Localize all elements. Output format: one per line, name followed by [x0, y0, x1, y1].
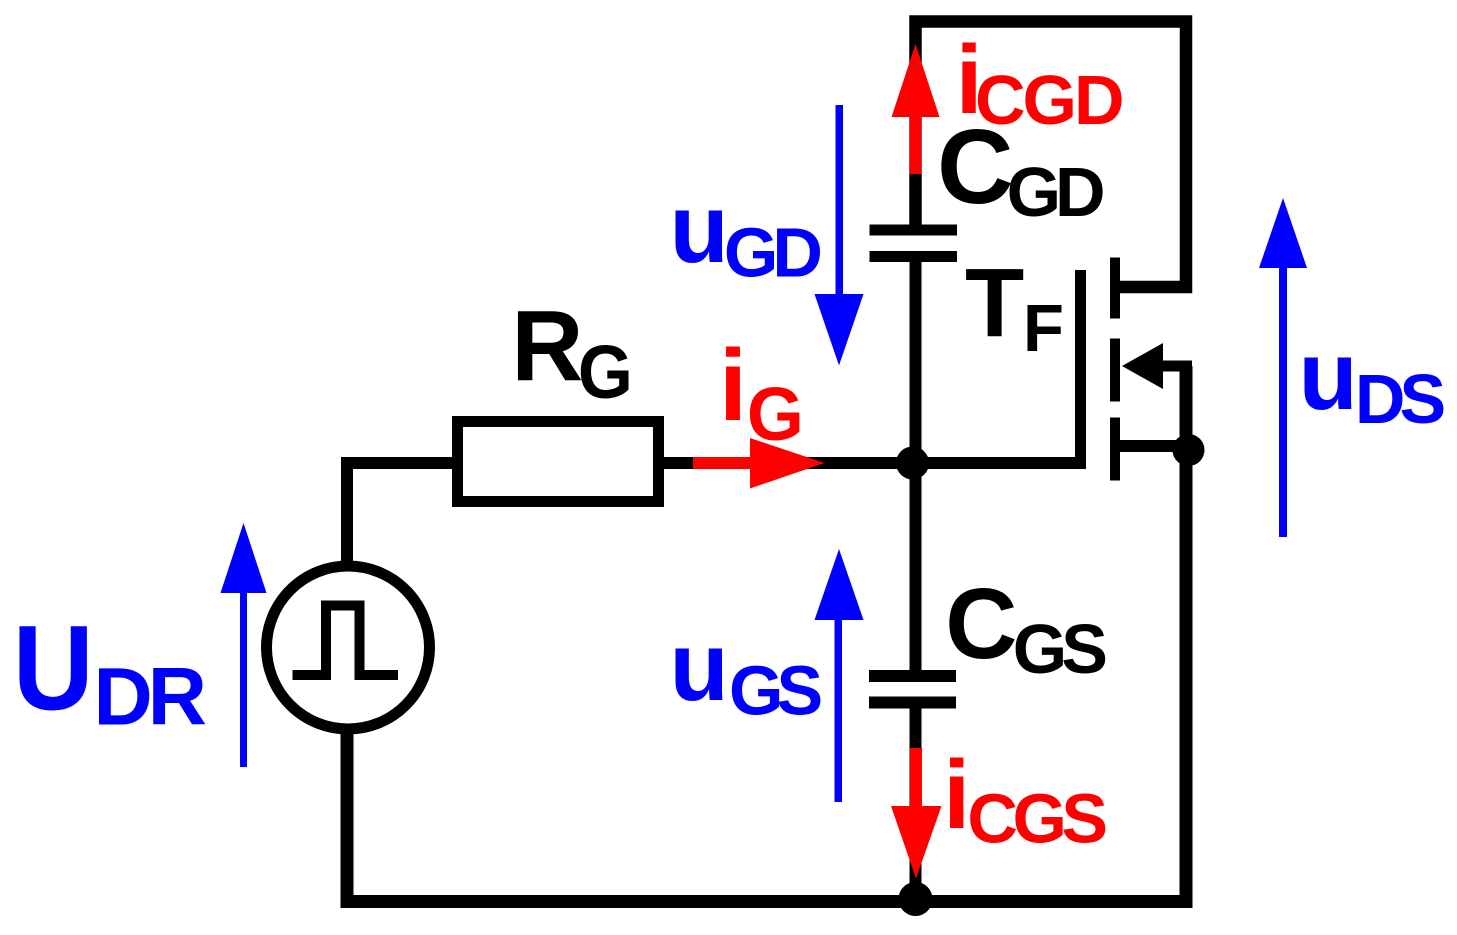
- label T_F: [965, 249, 1064, 367]
- source U_DR circle: [267, 566, 430, 729]
- arrow u_DS blue up: [1259, 198, 1307, 537]
- arrow u_GD blue down: [815, 105, 864, 366]
- node gate junction dot: [896, 447, 929, 480]
- transistor channel dashed segments: [1110, 258, 1120, 481]
- svg-text:G: G: [578, 330, 633, 414]
- transistor body arrow: [1122, 343, 1163, 389]
- label u_DS blue: [1299, 321, 1444, 438]
- pulse symbol inside source: [293, 606, 399, 676]
- arrow i_CGD red up: [892, 44, 940, 174]
- svg-text:GD: GD: [1007, 153, 1103, 231]
- arrow i_CGS red down: [891, 748, 942, 879]
- label u_GS blue: [670, 612, 821, 730]
- svg-text:u: u: [1299, 321, 1358, 430]
- svg-text:DS: DS: [1355, 360, 1444, 438]
- svg-text:GD: GD: [724, 214, 820, 292]
- svg-text:GS: GS: [729, 652, 820, 730]
- svg-text:T: T: [965, 249, 1024, 358]
- wire top loop: gate branch up, across, down to drain lead: [916, 22, 1187, 288]
- label u_GD blue: [670, 174, 821, 292]
- transistor source lead: [1115, 440, 1192, 452]
- transistor T_F gate line: [1075, 270, 1086, 469]
- wire left branch: to resistor, down to source circle: [347, 463, 452, 563]
- svg-text:i: i: [719, 330, 747, 442]
- node bottom junction dot: [899, 882, 933, 916]
- svg-text:C: C: [937, 108, 1014, 226]
- label R_G: [511, 290, 633, 414]
- svg-text:u: u: [670, 174, 729, 283]
- svg-text:u: u: [670, 612, 729, 721]
- label C_GD: [937, 108, 1103, 231]
- svg-text:C: C: [945, 568, 1017, 680]
- svg-text:U: U: [13, 600, 94, 736]
- svg-text:GS: GS: [1013, 610, 1105, 688]
- svg-text:CGS: CGS: [967, 780, 1105, 858]
- label i_CGD red: [956, 25, 1122, 139]
- wire C_GS bottom plate to bottom rail: [910, 703, 922, 901]
- arrow U_DR blue up: [221, 523, 267, 767]
- svg-text:i: i: [943, 740, 970, 849]
- wire gate node down to C_GS: [910, 463, 922, 671]
- wire main gate horizontal: [660, 457, 1086, 469]
- label i_G red: [719, 330, 804, 456]
- capacitor C_GD: [870, 230, 958, 257]
- resistor R_G box: [458, 422, 659, 502]
- label U_DR: [13, 600, 206, 743]
- capacitor C_GS: [869, 676, 956, 703]
- arrow i_G red: [693, 438, 825, 489]
- svg-text:G: G: [747, 372, 804, 456]
- wire C_GD bottom plate to gate node: [910, 258, 922, 463]
- svg-text:F: F: [1023, 291, 1064, 366]
- label C_GS: [945, 568, 1105, 688]
- svg-text:DR: DR: [94, 652, 206, 743]
- label i_CGS red: [943, 740, 1105, 858]
- svg-text:R: R: [511, 290, 583, 402]
- node source junction dot: [1173, 434, 1205, 466]
- arrow u_GS blue up: [815, 549, 864, 802]
- transistor body lead: [1158, 361, 1192, 372]
- wire source circle bottom, bottom rail, right vertical up to body lead: [347, 366, 1186, 902]
